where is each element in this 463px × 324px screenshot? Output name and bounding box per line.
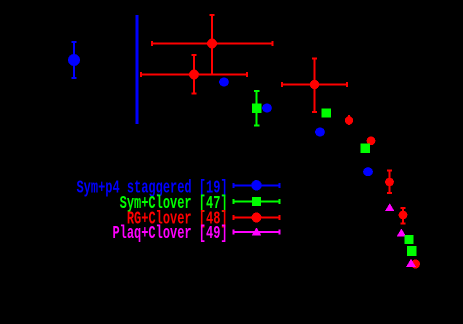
blue point B2 marker (219, 78, 229, 87)
red series RG+Clover (141, 15, 420, 269)
red point R2 error bars (141, 74, 247, 76)
green point G5 marker (407, 246, 417, 256)
magenta point M2 marker (397, 229, 407, 237)
blue point B4 marker (315, 128, 325, 137)
red point R7 marker (399, 211, 408, 220)
red point R3 marker (310, 80, 319, 89)
red point R7 error bar (402, 208, 404, 224)
blue series Sym+p4 staggered (68, 15, 373, 176)
svg-text:Plaq+Clover [49]: Plaq+Clover [49] (112, 223, 227, 244)
red point R2 marker (189, 70, 199, 80)
legend entry 4 sample: magenta errorbar + triangle (234, 227, 280, 235)
green point G2 marker (322, 108, 331, 117)
red point R1 error bars (152, 43, 273, 45)
green point G3 marker (361, 144, 370, 153)
blue point B3 marker (262, 104, 272, 113)
magenta point M3 marker (406, 259, 416, 267)
red point R6 error bar (389, 171, 391, 194)
blue point B1 marker (68, 54, 80, 66)
legend entry 1 sample: blue errorbar + circle (234, 180, 280, 190)
legend entry 3 sample: red errorbar + circle (234, 213, 280, 223)
red point R6 marker (385, 178, 394, 187)
red point R1 marker (207, 39, 217, 49)
green point G1 marker (252, 103, 262, 113)
red point R8 marker (411, 260, 420, 269)
red point R5 marker (367, 136, 376, 145)
green point G1 error bar (256, 91, 258, 125)
blue point B5 marker (363, 167, 373, 176)
green series Sym+Clover (252, 91, 417, 256)
red point R4 marker (348, 115, 350, 125)
magenta point M1 marker (385, 203, 395, 211)
legend entry 2 sample: green errorbar + square (234, 197, 280, 206)
blue point B1 error bar (73, 42, 75, 78)
magenta series Plaq+Clover (385, 203, 416, 267)
green point G4 marker (405, 235, 414, 244)
red point R3 error bars (282, 84, 347, 86)
blue vertical line (136, 15, 139, 124)
